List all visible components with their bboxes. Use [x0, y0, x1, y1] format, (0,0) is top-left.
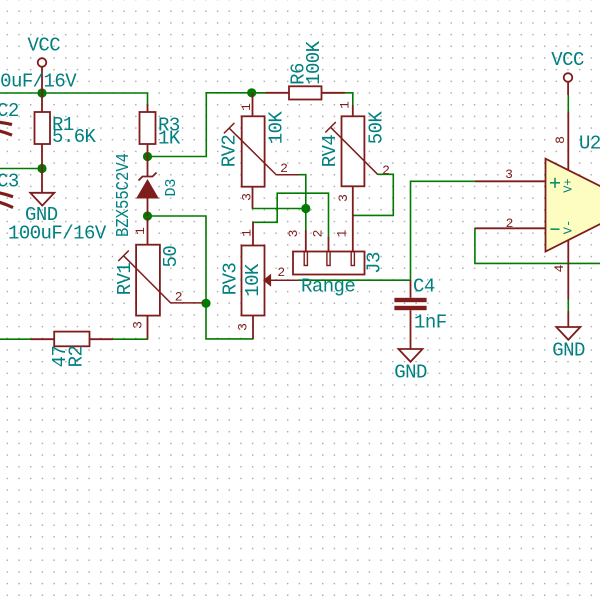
wire RV1 pin1 stub	[147, 216, 149, 222]
ground GND C4	[399, 349, 423, 362]
svg-text:8: 8	[553, 136, 568, 144]
wire RV3 pin2 to C4 and U2 pin3	[299, 181, 475, 280]
wire junction to R6 left	[252, 92, 266, 94]
svg-text:C2: C2	[0, 100, 19, 122]
potentiometer RV2	[224, 93, 299, 209]
svg-text:1nF: 1nF	[414, 312, 447, 334]
svg-text:10K: 10K	[266, 111, 288, 145]
capacitor C3 (clipped at left edge)	[0, 192, 13, 208]
svg-text:4: 4	[552, 264, 567, 272]
svg-text:RV3: RV3	[220, 263, 242, 296]
svg-text:2: 2	[280, 161, 288, 176]
resistor R3	[140, 104, 156, 157]
svg-text:3: 3	[286, 230, 301, 238]
svg-text:2: 2	[175, 290, 183, 305]
svg-text:3: 3	[240, 193, 255, 201]
junction RV1 wiper	[201, 299, 210, 308]
op-amp U2	[475, 112, 600, 300]
potentiometer RV4	[325, 105, 377, 265]
svg-text:100K: 100K	[303, 40, 325, 85]
zener diode D3	[138, 157, 158, 217]
svg-text:1: 1	[338, 101, 353, 109]
resistor R6	[266, 86, 345, 99]
wire VCC right to U2 pin8	[567, 95, 569, 112]
svg-text:3: 3	[505, 167, 513, 182]
junction R1/GND/C2	[37, 164, 46, 173]
svg-text:V-: V-	[561, 220, 575, 234]
svg-text:2: 2	[277, 265, 285, 280]
wire R2 to RV1 pin3	[113, 338, 148, 340]
svg-text:50K: 50K	[366, 111, 388, 145]
junction RV2/J3 pin3	[301, 204, 310, 213]
svg-text:VCC: VCC	[28, 35, 61, 57]
junction R6/RV2 pin1	[247, 88, 256, 97]
svg-text:2: 2	[311, 230, 326, 238]
svg-text:1: 1	[240, 229, 255, 237]
capacitor C4	[394, 280, 426, 349]
svg-text:RV4: RV4	[319, 135, 341, 168]
svg-text:1: 1	[335, 229, 350, 237]
wire VCC rail top-left to R3 top	[0, 93, 148, 105]
wire RV2 pin3 to junction	[253, 208, 306, 210]
svg-text:3: 3	[131, 321, 146, 329]
svg-text:GND: GND	[552, 340, 585, 362]
resistor R1	[35, 93, 51, 169]
ground GND left	[30, 169, 54, 206]
wire left edge to R2	[0, 338, 31, 340]
svg-text:J3: J3	[364, 252, 386, 274]
svg-text:RV1: RV1	[114, 263, 136, 296]
svg-text:C4: C4	[413, 276, 435, 298]
svg-text:GND: GND	[394, 362, 427, 384]
svg-text:1: 1	[239, 103, 254, 111]
op-amp minus marker	[551, 228, 560, 230]
junction R3/D3	[143, 152, 152, 161]
junction VCC/R1	[37, 88, 46, 97]
connector J3	[293, 230, 365, 275]
wire U2 pin2 feedback to output	[475, 228, 600, 263]
ground GND right	[556, 311, 580, 340]
op-amp plus marker	[550, 178, 560, 188]
svg-text:VCC: VCC	[551, 49, 584, 71]
svg-text:Range: Range	[301, 276, 355, 298]
svg-text:1: 1	[133, 227, 148, 235]
svg-text:2: 2	[506, 216, 514, 231]
svg-text:D3: D3	[163, 178, 180, 196]
svg-text:RV2: RV2	[219, 135, 241, 168]
wire C2/R1 bottom to GND node	[0, 168, 42, 170]
svg-text:C3: C3	[0, 171, 19, 193]
resistor R2	[31, 332, 113, 347]
VCC symbol left	[38, 58, 47, 93]
svg-text:5.6K: 5.6K	[52, 126, 97, 148]
svg-text:R2: R2	[66, 346, 88, 368]
svg-text:V+: V+	[561, 178, 575, 192]
wire R6 right to RV4 pin1	[322, 93, 353, 105]
svg-text:2: 2	[382, 163, 390, 178]
junction D3/RV1	[143, 211, 152, 220]
wire U2 pin4 to GND	[567, 300, 569, 312]
wire RV2 pin2 down to junction	[299, 175, 306, 230]
svg-text:BZX55C2V4: BZX55C2V4	[114, 153, 134, 237]
wire RV4 pin2 to pin3 net	[353, 174, 394, 215]
svg-text:3: 3	[336, 194, 351, 202]
potentiometer RV1	[118, 218, 203, 339]
svg-text:1K: 1K	[158, 128, 181, 150]
svg-text:U2: U2	[579, 133, 600, 155]
svg-text:100uF/16V: 100uF/16V	[8, 223, 107, 245]
wire R3 bottom to R6/RV2 rail	[148, 93, 266, 157]
svg-text:3: 3	[236, 323, 251, 331]
capacitor C2 (clipped at left edge)	[0, 122, 12, 135]
svg-text:100uF/16V: 100uF/16V	[0, 71, 77, 93]
wire D3 bottom to RV1 wiper to RV3 pin3	[148, 216, 254, 339]
svg-text:50: 50	[160, 246, 182, 268]
VCC symbol right	[564, 73, 573, 95]
svg-text:10K: 10K	[242, 263, 264, 297]
wire RV3 pin1 to J3 pin2	[253, 193, 329, 237]
potentiometer RV3	[242, 222, 299, 339]
